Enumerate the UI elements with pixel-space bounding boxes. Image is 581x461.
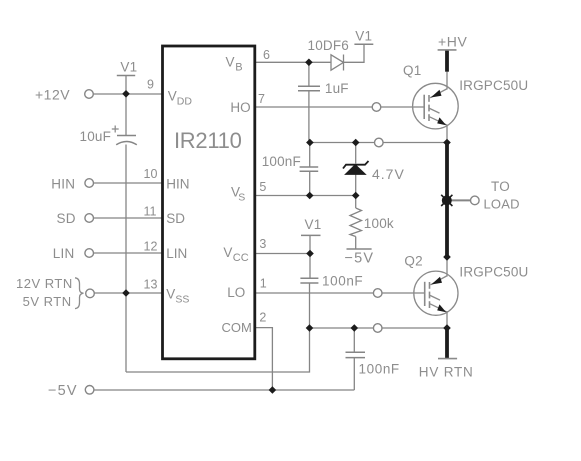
wire diode cathode to V1	[344, 44, 365, 62]
zener diode D2 4.7V	[343, 161, 369, 174]
capacitor C4 100nF (VCC)	[300, 278, 318, 283]
wire pin 5 VS	[255, 195, 356, 197]
node junction HV rail / Q2 collector	[443, 253, 451, 261]
wire pin 1 LO to Q2 gate	[255, 292, 425, 294]
power rail V1 (top middle)	[354, 43, 373, 45]
wire thick HV rail Q1 emitter to Q2 collector	[445, 143, 449, 258]
wire LIN input	[94, 252, 163, 254]
IC pin label VCC	[223, 245, 248, 264]
terminal SD	[85, 214, 94, 223]
svg-text:V1: V1	[355, 29, 372, 44]
svg-text:SD: SD	[166, 211, 185, 226]
wire VSS input	[95, 292, 164, 294]
wire thick Q2 emitter to HV RTN	[445, 328, 449, 359]
power rail +HV bar	[438, 49, 457, 51]
resistor R1 100k	[350, 208, 362, 237]
terminal +12V	[85, 90, 94, 99]
svg-text:IR2110: IR2110	[174, 128, 242, 153]
svg-text:V: V	[226, 55, 235, 70]
wire pin 3 VCC	[255, 253, 311, 255]
transistor Q1 collector arrow	[431, 90, 442, 98]
transistor Q2 collector arrow	[431, 277, 442, 285]
IC pin label VB	[226, 55, 243, 74]
wire pin 7 HO to Q1 gate	[255, 106, 425, 108]
svg-text:2: 2	[259, 311, 266, 325]
node junction VS wire / 1uF column	[306, 139, 314, 147]
wire VS emitter node run	[309, 142, 447, 144]
wire pin 6 VB to diode	[255, 61, 332, 63]
transistor Q1 IRGPC50U (IGBT)	[413, 83, 459, 129]
power rail HV RTN bar	[438, 358, 457, 360]
svg-text:12: 12	[144, 240, 158, 254]
wire -5V rail bottom	[94, 389, 354, 391]
svg-text:Q2: Q2	[404, 253, 422, 268]
node junction +12V/V1	[122, 90, 130, 98]
terminal 12V/5V RTN	[86, 289, 95, 298]
node junction VS wire / zener top	[352, 139, 360, 147]
svg-text:B: B	[235, 62, 242, 74]
svg-text:12V RTN: 12V RTN	[16, 276, 73, 291]
svg-text:−5V: −5V	[48, 383, 78, 399]
IC pin label VDD	[168, 89, 193, 108]
svg-text:SS: SS	[175, 294, 189, 306]
svg-text:+HV: +HV	[438, 33, 467, 49]
terminal HO test point	[372, 103, 381, 112]
svg-text:13: 13	[144, 278, 158, 292]
svg-text:100k: 100k	[364, 216, 394, 231]
node junction -5V rail / COM stub	[269, 386, 277, 394]
svg-text:5V RTN: 5V RTN	[23, 294, 72, 309]
wire VS cap column top	[309, 143, 311, 168]
node junction pin5 / zener bottom	[352, 192, 360, 200]
svg-text:CC: CC	[233, 252, 249, 264]
svg-text:100nF: 100nF	[322, 273, 363, 288]
svg-text:LO: LO	[227, 285, 245, 300]
svg-text:4.7V: 4.7V	[372, 166, 405, 182]
power rail -5V (under 100k)	[347, 248, 372, 250]
capacitor C1 plus sign	[112, 126, 119, 133]
svg-text:IRGPC50U: IRGPC50U	[459, 265, 528, 280]
svg-text:10uF: 10uF	[80, 129, 112, 144]
svg-text:DD: DD	[177, 96, 193, 108]
svg-text:COM: COM	[222, 320, 252, 335]
wire +HV thin lead into Q1 collector	[446, 72, 448, 90]
wire thick +HV stub	[445, 51, 449, 72]
svg-text:+12V: +12V	[35, 87, 70, 103]
svg-text:V1: V1	[120, 59, 137, 74]
wire node A down to 10uF top	[125, 94, 127, 136]
wire Q2 emitter lead	[446, 311, 448, 328]
node junction COM run / VCC cap column	[306, 324, 314, 332]
svg-text:V: V	[168, 89, 177, 104]
wire Q1 emitter lead	[446, 125, 448, 143]
wire SD input	[94, 217, 163, 219]
svg-text:HO: HO	[230, 100, 250, 115]
IC U1 IR2110 body	[163, 46, 255, 359]
svg-text:11: 11	[144, 205, 157, 219]
svg-text:IRGPC50U: IRGPC50U	[459, 78, 528, 93]
svg-text:SD: SD	[57, 211, 76, 226]
svg-text:1uF: 1uF	[325, 81, 349, 96]
wire 100k bottom lead to -5V bar	[355, 237, 357, 250]
svg-text:LOAD: LOAD	[484, 196, 520, 211]
wire VCC cap column top	[309, 254, 311, 279]
wire V1 stub to VCC	[309, 235, 311, 253]
power rail V1 (VCC)	[301, 234, 321, 236]
wire VS cap column bottom	[309, 171, 311, 196]
wire 1uF bottom to VS emitter wire	[308, 91, 310, 143]
terminal -5V	[85, 386, 94, 395]
IC pin label VSS	[166, 287, 189, 306]
transistor Q2 IRGPC50U (IGBT)	[414, 271, 458, 315]
terminal LO test point	[373, 289, 382, 298]
node junction VSS wire / left column	[122, 289, 130, 297]
svg-text:100nF: 100nF	[262, 154, 301, 169]
svg-text:V: V	[223, 245, 232, 260]
svg-text:LIN: LIN	[53, 246, 75, 261]
svg-text:HIN: HIN	[166, 176, 189, 191]
wire VCC cap column bottom to COM run	[309, 283, 311, 328]
transistor Q1 emitter arrow	[437, 117, 446, 125]
svg-text:HV RTN: HV RTN	[419, 364, 474, 379]
wire VB node down to 1uF	[308, 62, 310, 86]
brace for RTN labels	[75, 278, 84, 309]
power rail V1 (top left)	[117, 75, 135, 77]
svg-text:3: 3	[259, 237, 266, 251]
svg-text:LIN: LIN	[166, 246, 187, 261]
svg-text:1: 1	[260, 277, 267, 291]
wire TO LOAD stub	[447, 199, 471, 201]
transistor Q2 emitter arrow	[437, 304, 446, 312]
wire 10uF bottom down to VSS wire and below	[125, 145, 127, 373]
svg-text:Q1: Q1	[403, 63, 421, 78]
node junction VCC / V1	[306, 250, 314, 258]
terminal HIN	[85, 179, 94, 188]
wire zener top lead	[355, 143, 357, 164]
terminal COM test point	[373, 324, 382, 333]
node junction COM run / Q2 emitter	[443, 324, 451, 332]
svg-text:5: 5	[259, 180, 266, 194]
wire Q2 collector lead	[446, 257, 448, 277]
node junction pin5 / cap column	[306, 192, 314, 200]
svg-text:−5V: −5V	[345, 250, 375, 266]
IC pin label VS	[231, 185, 245, 204]
svg-text:6: 6	[263, 48, 270, 62]
node junction VS wire / HV rail	[443, 139, 451, 147]
svg-text:7: 7	[258, 92, 265, 106]
terminal VS test point	[375, 138, 384, 147]
capacitor C1 10uF (polarized)	[116, 136, 137, 145]
wire COM pin 2 stub down to -5V rail	[255, 328, 273, 390]
capacitor C3 100nF (VB-VS)	[300, 167, 319, 171]
svg-text:10DF6: 10DF6	[308, 38, 350, 53]
capacitor C2 1uF	[298, 86, 320, 91]
svg-text:V: V	[166, 287, 175, 302]
wire +12V to IC pin 9	[94, 93, 164, 95]
svg-text:100nF: 100nF	[359, 362, 400, 377]
diode D1 10DF6	[331, 55, 344, 71]
svg-text:10: 10	[144, 167, 158, 181]
node junction COM run / bypass cap	[351, 324, 359, 332]
wire V1 stub to +12V node	[125, 76, 127, 95]
svg-text:TO: TO	[491, 179, 510, 194]
wire COM right run to Q2 emitter	[310, 327, 448, 329]
wire 100k top lead	[355, 196, 357, 209]
wire zener bottom lead	[355, 174, 357, 196]
svg-text:V1: V1	[305, 217, 322, 232]
terminal TO LOAD	[471, 196, 480, 205]
wire HIN input	[94, 182, 163, 184]
wire bypass cap column bottom	[353, 358, 355, 390]
wire bottom run under IC	[126, 328, 310, 372]
svg-text:HIN: HIN	[51, 176, 75, 191]
terminal LIN	[85, 249, 94, 258]
node TO LOAD star junction	[441, 195, 452, 206]
svg-text:9: 9	[147, 78, 154, 92]
wire bypass cap column top	[353, 328, 355, 352]
capacitor C5 100nF (COM)	[346, 352, 366, 357]
node junction VB/diode	[305, 59, 313, 67]
svg-text:S: S	[238, 192, 245, 204]
